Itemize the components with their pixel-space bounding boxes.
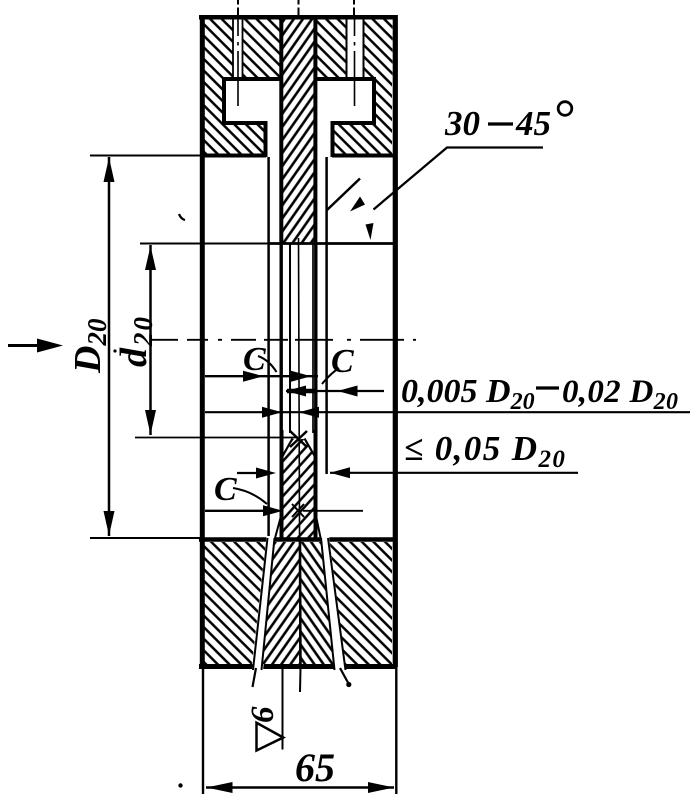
cone hatch [282, 439, 316, 540]
row D arrowhead right-pointing [256, 468, 276, 479]
bell line left outer [253, 538, 268, 670]
svg-text:30: 30 [444, 104, 480, 143]
D20 arrow up [104, 158, 115, 183]
left bolt hole left wall [232, 19, 234, 79]
bell herringbone left [262, 542, 302, 664]
d20 arrow up [145, 246, 156, 270]
row C arrowhead left-pointing [299, 407, 319, 418]
centerline extension below block [299, 668, 302, 692]
row A arrowhead 1 [243, 371, 264, 382]
bell gap white right [320, 536, 346, 671]
top flange hatch lower-left step [204, 125, 264, 154]
surface finish digit 6 rotated [245, 706, 281, 723]
right bolt hole centerline stub above [353, 0, 355, 15]
bell herringbone right [301, 542, 335, 664]
bottom block hatch right [329, 542, 392, 664]
top flange block hatch left of left bolt hole [204, 19, 233, 79]
throat chamfer cross [290, 431, 307, 447]
top flange hatch lower-right step [333, 125, 392, 154]
row D arrowhead left-pointing [330, 467, 350, 478]
cone bore edge right [305, 439, 316, 459]
left cavity left edge [222, 77, 226, 125]
d20 extension line bottom [135, 437, 298, 439]
top flange hatch right wall beside cavity [376, 79, 392, 125]
D20 arrow down [104, 511, 115, 536]
d20 arrow down [145, 410, 156, 435]
svg-text:6: 6 [245, 706, 281, 723]
top block bottom edge right part [332, 154, 396, 158]
top flange hatch left wall beside cavity [204, 79, 222, 125]
bell extension below block right [340, 668, 349, 684]
bell line left inner [262, 538, 275, 670]
row E right thin line [303, 510, 363, 512]
top flange block hatch right of right bolt hole [364, 19, 393, 79]
row C arrowhead right-pointing [262, 407, 282, 418]
tube wall right below face [314, 243, 317, 430]
bell leadin right inner [316, 516, 321, 540]
nozzle stem right edge [313, 15, 317, 243]
tube wall left below face [280, 243, 283, 430]
bottom block top edge [199, 537, 397, 542]
leader C upper-left [258, 356, 277, 372]
label d20 [113, 315, 158, 367]
dimension line D20 [108, 157, 111, 536]
right cavity step edge [331, 121, 335, 157]
leader C upper-right [322, 368, 339, 384]
speck bottom left [178, 783, 182, 787]
angle arrow onto face [366, 223, 374, 240]
svg-text:C: C [214, 471, 237, 508]
dim 65 extension right [395, 668, 397, 794]
surface finish triangle [257, 723, 284, 751]
svg-text:45: 45 [515, 104, 551, 143]
svg-text:C: C [331, 343, 354, 380]
bottom block bottom edge [199, 664, 398, 669]
main horizontal centerline dash-dot [150, 339, 416, 341]
row B arrowhead 1 [286, 386, 306, 397]
cone bore edge left [282, 439, 293, 459]
dim 65 arrow right [368, 782, 394, 793]
row D right line with label underline [330, 472, 578, 474]
flow arrow [8, 344, 40, 347]
top block bottom edge left part [200, 154, 266, 158]
body right wall [393, 15, 398, 667]
wall dim row B line [286, 390, 384, 392]
row E cross [292, 504, 304, 517]
nozzle stem left edge [279, 15, 283, 243]
row E line [205, 510, 266, 512]
D20 extension line bottom [90, 537, 200, 539]
left bolt hole right wall [242, 19, 244, 79]
body left wall [200, 15, 205, 667]
right bolt hole right wall [363, 19, 365, 79]
blob at right extension end [346, 682, 351, 687]
bore line right [312, 243, 314, 433]
nozzle upper stem hatch [281, 19, 316, 243]
speck near top left [179, 214, 185, 220]
right bolt hole left wall [346, 19, 348, 79]
D20 extension line top [90, 155, 200, 157]
wall dim row A line [205, 375, 318, 377]
chamfer edge line [327, 179, 360, 211]
tube face line y243 [140, 242, 270, 244]
sleeve outer line left [267, 157, 270, 541]
leader C lower [233, 488, 267, 504]
top flange block hatch between left bolt hole and nozzle [243, 19, 281, 79]
right cavity right edge [372, 77, 376, 125]
leader line for 30-45 label [374, 148, 544, 210]
bottom block hatch left [204, 542, 266, 664]
row E arrowhead [263, 505, 283, 516]
left cavity bottom edge [222, 121, 267, 125]
wall dim row C line with label underline [205, 411, 690, 413]
bell extension below block left [253, 668, 257, 687]
top block outer top edge [199, 15, 396, 20]
speck right of D20 line [113, 349, 116, 352]
degree circle [558, 102, 572, 116]
right bolt hole centerline through hole [354, 19, 356, 79]
bell line right inner [321, 538, 335, 670]
surface extension line to finish mark [282, 668, 284, 750]
left cavity step edge [264, 121, 268, 157]
nozzle centerline stub above block [298, 0, 300, 15]
bell line right outer [328, 538, 346, 670]
dim 65 line [206, 786, 394, 789]
label D20 [67, 318, 112, 374]
row A arrowhead 2 [291, 371, 311, 382]
svg-text:65: 65 [295, 745, 335, 790]
dim 65 extension left [202, 668, 204, 794]
bore line left [289, 243, 291, 433]
nozzle centerline main [299, 238, 301, 668]
left cavity top edge [222, 77, 281, 81]
sleeve outer line right [325, 157, 328, 474]
bell gap white left [252, 536, 276, 671]
bell leadin left inner [275, 516, 282, 540]
angle arrow onto chamfer [350, 197, 365, 212]
right cavity top edge [316, 77, 376, 81]
row B heavy bar [287, 389, 316, 394]
centerline through bottom block [299, 540, 302, 667]
dim 65 arrow left [207, 782, 233, 793]
left bolt hole centerline stub above [237, 0, 239, 15]
dimension line d20 [149, 245, 152, 435]
row D left line [237, 472, 260, 474]
left bolt hole centerline through hole [237, 19, 239, 79]
right cavity bottom edge [331, 121, 376, 125]
top flange block hatch between nozzle and right bolt hole [316, 19, 347, 79]
row B arrowhead 2 [338, 386, 358, 397]
